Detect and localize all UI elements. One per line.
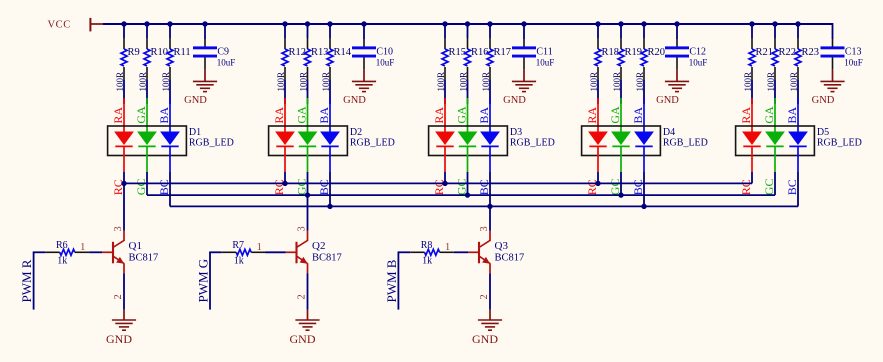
svg-text:R6: R6 [56, 240, 68, 251]
resistor R22 pin 2 [774, 67, 776, 80]
wire D1 BC to bus [169, 172, 171, 206]
svg-text:R22: R22 [779, 47, 797, 58]
ground below Q1 [112, 320, 136, 330]
svg-text:D3: D3 [510, 127, 522, 138]
svg-text:BA: BA [477, 107, 491, 124]
wire R18 to net RA [597, 80, 599, 104]
resistor R23 pin 1 [797, 38, 799, 49]
wire VCC rail to R13 [307, 24, 309, 38]
junction on VCC rail at R17 [487, 21, 492, 26]
resistor R12 pin 2 [284, 67, 286, 80]
svg-text:GND: GND [472, 332, 498, 346]
capacitor C11 pin 1 [523, 39, 525, 47]
LED D1 B triangle [160, 132, 180, 146]
svg-text:GA: GA [134, 106, 148, 124]
svg-text:2: 2 [297, 294, 308, 299]
svg-text:R13: R13 [311, 47, 329, 58]
transistor Q3 emitter pin 2 [489, 263, 491, 273]
resistor R21 pin 1 [751, 38, 753, 49]
wire D1 GC colored segment [146, 146, 148, 172]
wire D5 BC colored segment [797, 146, 799, 172]
transistor Q2 collector pin 3 [307, 231, 309, 241]
LED part D5 body [736, 126, 815, 156]
junction on VCC rail at R14 [327, 21, 332, 26]
svg-text:GND: GND [812, 95, 835, 106]
svg-text:RA: RA [111, 107, 125, 124]
resistor R15 [442, 49, 448, 66]
resistor R20 pin 2 [643, 67, 645, 80]
wire net BA colored segment [329, 98, 331, 132]
wire VCC rail to R23 [797, 24, 799, 38]
resistor R17 pin 2 [489, 67, 491, 80]
svg-text:BA: BA [157, 107, 171, 124]
wire net RA colored segment [284, 98, 286, 132]
wire C9 to ground [204, 69, 206, 81]
wire D2 GC colored segment [307, 146, 309, 172]
LED D3 B cathode bar [481, 145, 498, 147]
capacitor C12 [665, 46, 689, 57]
wire net GA colored segment [774, 98, 776, 132]
wire R10 to net GA [146, 80, 148, 104]
junction on VCC rail at R13 [305, 21, 310, 26]
svg-text:C9: C9 [217, 47, 229, 58]
wire VCC rail to R12 [284, 24, 286, 38]
LED D4 B cathode bar [635, 145, 652, 147]
resistor R10 [144, 49, 150, 66]
wire net BA colored segment [797, 98, 799, 132]
capacitor C9 pin 2 [204, 58, 206, 70]
LED D2 B cathode bar [321, 145, 338, 147]
wire VCC rail [103, 23, 833, 25]
wire VCC rail to R11 [169, 24, 171, 38]
resistor R10 pin 1 [146, 38, 148, 49]
wire D4 GC colored segment [620, 146, 622, 172]
svg-text:2: 2 [479, 294, 490, 299]
resistor R16 pin 1 [467, 38, 469, 49]
wire R12 to net RA [284, 80, 286, 104]
svg-text:C10: C10 [376, 47, 393, 58]
svg-text:C13: C13 [845, 47, 862, 58]
junction on VCC rail at R19 [618, 21, 623, 26]
wire C13 to ground [832, 69, 834, 81]
svg-text:RGB_LED: RGB_LED [663, 138, 708, 149]
LED D1 G cathode bar [138, 145, 155, 147]
resistor R17 [487, 49, 493, 66]
wire R13 to net GA [307, 80, 309, 104]
wire PWM G input [209, 251, 222, 253]
LED D2 G cathode bar [299, 145, 316, 147]
wire D4 BC colored segment [643, 146, 645, 172]
svg-text:3: 3 [297, 226, 308, 231]
wire D5 GC to bus [774, 172, 776, 195]
svg-text:GND: GND [343, 95, 366, 106]
junction Q3 collector / bus [487, 204, 492, 209]
wire VCC rail to C12 [676, 24, 678, 39]
svg-text:10uF: 10uF [217, 57, 236, 67]
transistor Q3 symbol [479, 240, 490, 263]
wire R11 to net BA [169, 80, 171, 104]
LED D4 G triangle [611, 132, 631, 146]
wire D5 GC colored segment [774, 146, 776, 172]
wire D2 BC colored segment [329, 146, 331, 172]
transistor Q3 base pin 1 [468, 251, 479, 253]
wire ground stem Q1 [123, 310, 125, 320]
capacitor C10 pin 1 [363, 39, 365, 47]
wire net BA colored segment [643, 98, 645, 132]
resistor R13 [305, 49, 311, 66]
resistor R12 pin 1 [284, 38, 286, 49]
resistor R23 [795, 49, 801, 66]
wire C11 to ground [523, 69, 525, 81]
junction on VCC rail at R9 [121, 21, 126, 26]
wire C12 to ground [676, 69, 678, 81]
ground below C9 [193, 81, 217, 91]
wire net RA colored segment [751, 98, 753, 132]
wire bus net BC [170, 205, 798, 207]
resistor R11 pin 1 [169, 38, 171, 49]
capacitor C12 pin 2 [676, 58, 678, 70]
wire D2 GC to bus [307, 172, 309, 195]
svg-text:3: 3 [479, 226, 490, 231]
wire R23 to net BA [797, 80, 799, 104]
wire VCC rail drop to C13 [832, 23, 834, 39]
ground below Q3 [478, 320, 502, 330]
svg-text:R19: R19 [625, 47, 643, 58]
wire D4 BC to bus [643, 172, 645, 206]
ground below C11 [512, 81, 536, 91]
svg-text:RGB_LED: RGB_LED [189, 138, 234, 149]
junction Q2 collector / bus [305, 192, 310, 197]
LED D2 B triangle [320, 132, 340, 146]
wire VCC rail to C9 [204, 24, 206, 39]
svg-text:R18: R18 [602, 47, 620, 58]
wire bus net RC [124, 182, 752, 184]
wire PWM B input [398, 251, 411, 253]
svg-text:R9: R9 [128, 47, 140, 58]
resistor R17 pin 1 [489, 38, 491, 49]
junction on VCC rail at R21 [749, 21, 754, 26]
LED D4 G cathode bar [612, 145, 629, 147]
svg-text:Q2: Q2 [312, 240, 325, 252]
wire D5 BC to bus [797, 172, 799, 206]
wire VCC rail to R17 [489, 24, 491, 38]
LED D4 R cathode bar [589, 145, 606, 147]
transistor Q1 collector pin 3 [123, 231, 125, 241]
wire D3 RC colored segment [444, 146, 446, 172]
wire ground stem Q3 [489, 310, 491, 320]
transistor Q2 base pin 1 [286, 251, 297, 253]
resistor R14 pin 2 [329, 67, 331, 80]
LED D2 R cathode bar [276, 145, 293, 147]
resistor R22 pin 1 [774, 38, 776, 49]
svg-text:GND: GND [184, 95, 207, 106]
resistor R7 [236, 249, 251, 255]
LED D5 B cathode bar [789, 145, 806, 147]
resistor R22 [772, 49, 778, 66]
svg-text:D5: D5 [817, 127, 829, 138]
junction BC bus / D4 [641, 204, 646, 209]
junction on VCC rail at R22 [772, 21, 777, 26]
resistor R9 [121, 49, 127, 66]
wire PWM G vertical [209, 252, 211, 310]
wire VCC rail to R19 [620, 24, 622, 38]
LED D1 B cathode bar [161, 145, 178, 147]
capacitor C11 [512, 46, 536, 57]
svg-text:3: 3 [113, 226, 124, 231]
wire VCC rail to R16 [467, 24, 469, 38]
transistor Q2 emitter pin 2 [307, 263, 309, 273]
resistor R8 [425, 249, 440, 255]
svg-text:GA: GA [295, 106, 309, 124]
wire D1 RC colored segment [123, 146, 125, 172]
wire VCC rail to R20 [643, 24, 645, 38]
wire R6 to Q1 base [89, 251, 102, 253]
svg-text:D1: D1 [189, 127, 201, 138]
junction on VCC rail at R12 [282, 21, 287, 26]
power port VCC [48, 18, 104, 32]
svg-text:R20: R20 [648, 47, 666, 58]
resistor R13 pin 2 [307, 67, 309, 80]
wire VCC rail to R10 [146, 24, 148, 38]
LED part D2 body [269, 126, 348, 156]
wire Q3 collector to bus [489, 206, 491, 230]
resistor R8 pin 1 [410, 251, 424, 253]
svg-text:RA: RA [432, 107, 446, 124]
resistor R18 pin 2 [597, 67, 599, 80]
svg-text:R14: R14 [334, 47, 352, 58]
LED part D1 body [108, 126, 187, 156]
wire R21 to net RA [751, 80, 753, 104]
junction RC bus / D4 [595, 181, 600, 186]
svg-text:C11: C11 [536, 47, 552, 58]
wire PWM B vertical [397, 252, 399, 310]
LED D5 R cathode bar [743, 145, 760, 147]
transistor Q1 emitter pin 2 [123, 263, 125, 273]
resistor R16 pin 2 [467, 67, 469, 80]
svg-text:D4: D4 [663, 127, 675, 138]
svg-text:RA: RA [585, 107, 599, 124]
svg-text:GND: GND [503, 95, 526, 106]
resistor R21 pin 2 [751, 67, 753, 80]
resistor R9 pin 2 [123, 67, 125, 80]
svg-text:R15: R15 [449, 47, 467, 58]
resistor R19 pin 2 [620, 67, 622, 80]
wire VCC rail to C11 [523, 24, 525, 39]
svg-text:R11: R11 [174, 47, 191, 58]
junction on VCC rail at C12 [674, 21, 679, 26]
svg-text:R7: R7 [232, 240, 244, 251]
svg-text:R16: R16 [471, 47, 489, 58]
ground below C12 [665, 81, 689, 91]
svg-text:R21: R21 [756, 47, 774, 58]
svg-text:GND: GND [106, 332, 132, 346]
wire Q1 emitter to ground [123, 274, 125, 310]
wire Q3 emitter to ground [489, 274, 491, 310]
junction Q1 collector / bus [121, 181, 126, 186]
resistor R18 pin 1 [597, 38, 599, 49]
wire R7 to Q2 base [266, 251, 286, 253]
wire PWM R vertical [33, 252, 35, 310]
transistor Q2 symbol [297, 240, 308, 263]
wire net BA colored segment [169, 98, 171, 132]
wire R9 to net RA [123, 80, 125, 104]
wire VCC rail to R18 [597, 24, 599, 38]
LED D2 G triangle [298, 132, 318, 146]
transistor Q1 symbol [113, 240, 124, 263]
wire D3 BC colored segment [489, 146, 491, 172]
resistor R11 [167, 49, 173, 66]
resistor R19 [618, 49, 624, 66]
svg-text:R23: R23 [802, 47, 820, 58]
LED D3 R triangle [435, 132, 455, 146]
ground below C10 [352, 81, 376, 91]
capacitor C10 pin 2 [363, 58, 365, 70]
wire net GA colored segment [467, 98, 469, 132]
resistor R10 pin 2 [146, 67, 148, 80]
LED part D3 body [429, 126, 508, 156]
wire Q2 collector to bus [307, 195, 309, 231]
resistor R19 pin 1 [620, 38, 622, 49]
svg-text:R12: R12 [289, 47, 307, 58]
junction on VCC rail at C11 [521, 21, 526, 26]
wire Q1 collector to bus [123, 183, 125, 230]
svg-text:D2: D2 [350, 127, 362, 138]
wire net GA colored segment [307, 98, 309, 132]
svg-text:PWM R: PWM R [19, 259, 34, 302]
junction on VCC rail at R23 [795, 21, 800, 26]
resistor R6 [60, 249, 75, 255]
svg-text:GND: GND [656, 95, 679, 106]
svg-text:1k: 1k [57, 256, 67, 267]
svg-text:RA: RA [272, 107, 286, 124]
resistor R7 pin 2 [251, 251, 265, 253]
svg-text:BC817: BC817 [495, 253, 525, 264]
svg-text:10uF: 10uF [844, 57, 863, 67]
wire D4 RC to bus [597, 172, 599, 183]
wire D2 BC to bus [329, 172, 331, 206]
wire bus net GC [147, 194, 775, 196]
svg-text:1k: 1k [234, 256, 244, 267]
svg-text:PWM B: PWM B [384, 259, 399, 302]
LED D5 B triangle [788, 132, 808, 146]
svg-text:R10: R10 [151, 47, 169, 58]
resistor R21 [749, 49, 755, 66]
wire D4 GC to bus [620, 172, 622, 195]
svg-text:C12: C12 [689, 47, 706, 58]
resistor R9 pin 1 [123, 38, 125, 49]
wire VCC rail to R15 [444, 24, 446, 38]
junction RC bus / D2 [282, 181, 287, 186]
wire D2 RC colored segment [284, 146, 286, 172]
junction on VCC rail at R20 [641, 21, 646, 26]
wire R20 to net BA [643, 80, 645, 104]
resistor R16 [465, 49, 471, 66]
junction on VCC rail at R15 [442, 21, 447, 26]
wire VCC rail to R21 [751, 24, 753, 38]
wire D3 GC to bus [467, 172, 469, 195]
svg-text:Q3: Q3 [495, 240, 509, 252]
wire PWM R input [33, 251, 46, 253]
svg-text:GND: GND [290, 332, 316, 346]
wire R16 to net GA [467, 80, 469, 104]
resistor R11 pin 2 [169, 67, 171, 80]
resistor R15 pin 1 [444, 38, 446, 49]
capacitor C12 pin 1 [676, 39, 678, 47]
LED D3 G triangle [458, 132, 478, 146]
wire net GA colored segment [146, 98, 148, 132]
svg-text:BC: BC [157, 179, 171, 195]
wire net BA colored segment [489, 98, 491, 132]
resistor R20 pin 1 [643, 38, 645, 49]
resistor R13 pin 1 [307, 38, 309, 49]
capacitor C9 [193, 46, 217, 57]
transistor Q1 base pin 1 [102, 251, 113, 253]
svg-text:BC817: BC817 [312, 253, 342, 264]
wire D2 RC to bus [284, 172, 286, 183]
resistor R6 pin 1 [45, 251, 59, 253]
wire R8 to Q3 base [454, 251, 468, 253]
wire D3 BC to bus [489, 172, 491, 206]
wire R17 to net BA [489, 80, 491, 104]
svg-text:VCC: VCC [48, 20, 71, 31]
resistor R14 [327, 49, 333, 66]
junction GC bus / D4 [618, 192, 623, 197]
LED D3 B triangle [480, 132, 500, 146]
LED D4 B triangle [634, 132, 654, 146]
svg-text:GA: GA [762, 106, 776, 124]
svg-text:10uF: 10uF [376, 57, 395, 67]
wire VCC rail to C10 [363, 24, 365, 39]
wire D3 GC colored segment [467, 146, 469, 172]
resistor R15 pin 2 [444, 67, 446, 80]
capacitor C13 pin 1 [832, 39, 834, 47]
svg-text:RGB_LED: RGB_LED [817, 138, 862, 149]
junction BC bus / D2 [327, 204, 332, 209]
svg-text:BA: BA [631, 107, 645, 124]
svg-text:BC817: BC817 [129, 253, 159, 264]
LED D1 R cathode bar [115, 145, 132, 147]
wire R14 to net BA [329, 80, 331, 104]
LED D5 R triangle [742, 132, 762, 146]
wire R22 to net GA [774, 80, 776, 104]
wire net GA colored segment [620, 98, 622, 132]
resistor R12 [282, 49, 288, 66]
LED D3 R cathode bar [436, 145, 453, 147]
wire C10 to ground [363, 69, 365, 81]
junction on VCC rail at C10 [361, 21, 366, 26]
svg-text:PWM G: PWM G [196, 259, 211, 303]
junction RC bus / D3 [442, 181, 447, 186]
LED D2 R triangle [275, 132, 295, 146]
resistor R23 pin 2 [797, 67, 799, 80]
svg-text:GA: GA [608, 106, 622, 124]
LED D1 G triangle [137, 132, 157, 146]
svg-text:2: 2 [113, 294, 124, 299]
wire R19 to net GA [620, 80, 622, 104]
resistor R8 pin 2 [440, 251, 454, 253]
LED D1 R triangle [114, 132, 134, 146]
svg-text:R8: R8 [421, 240, 433, 251]
LED D3 G cathode bar [459, 145, 476, 147]
junction on VCC rail at R18 [595, 21, 600, 26]
resistor R20 [641, 49, 647, 66]
resistor R18 [595, 49, 601, 66]
ground below C13 [820, 81, 844, 91]
svg-text:10uF: 10uF [536, 57, 555, 67]
capacitor C11 pin 2 [523, 58, 525, 70]
wire VCC rail to R14 [329, 24, 331, 38]
wire D3 RC to bus [444, 172, 446, 183]
